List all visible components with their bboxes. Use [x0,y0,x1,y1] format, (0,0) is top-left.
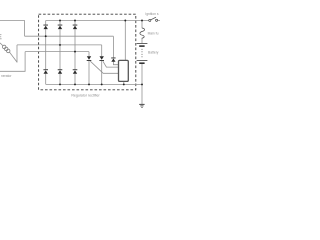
regulator IC U1 [119,60,129,81]
wire IC top pin from rail [124,21,126,61]
wire phase2 drop to SCR Q2 [101,45,103,56]
wire rectifier D3 column [74,21,76,85]
node rail-battery [141,20,143,22]
generator winding lead-in [0,43,3,46]
wire rectifier D1 column [45,21,47,85]
wire top-left lead [0,21,25,37]
generator winding tail diagonal [10,52,18,62]
wire battery column top [141,21,143,29]
wire IC bottom pin [123,82,125,85]
supply diode D7 [111,58,115,62]
wire battery to rail and ground [141,64,143,104]
node lower rail Q1 [88,83,90,85]
node rail-IC [124,20,126,22]
junction dots [45,20,143,86]
wire supply diode to IC [113,62,118,65]
generator winding loops [2,45,10,53]
node lower rail battery [141,83,143,85]
svg-text:Ignition s: Ignition s [145,12,159,16]
node phase1-D1 [45,35,47,37]
node lower rail D3 [74,83,76,85]
wire winding tap vertical [16,45,18,63]
fuse F1 [140,28,145,38]
node lower rail IC [123,83,125,85]
wire switch stub right [158,20,160,22]
diode D1 top [43,25,48,30]
left-edge text fragment marks [0,34,2,39]
svg-text:Battery: Battery [148,51,159,55]
wire bottom rail [46,83,142,85]
battery BT1 [137,43,148,64]
svg-text:Main fu: Main fu [148,32,159,36]
wire SCR Q1 cathode [88,61,90,85]
wire rectifier D2 column [59,21,61,85]
dashed enclosure: regulator rectifier box [39,14,136,90]
wire phase3 drop to SCR Q1 [88,52,90,57]
node lower rail Q2 [101,83,103,85]
wire gate Q1 to IC [90,61,118,73]
node lower rail D2 [59,83,61,85]
wire phase1 horizontal [25,35,114,37]
diode D4 bottom [43,69,48,73]
node phase2-D2 [59,44,61,46]
diode D6 bottom [73,69,78,73]
node rail-D2 [59,20,61,22]
wire gate Q2 to IC [103,61,119,67]
SCR Q2 [99,56,104,61]
wire phase1 drop to supply diode [112,36,114,57]
node phase3-D3 [74,51,76,53]
ignition switch [149,17,158,21]
wire phase3 horizontal [25,51,89,53]
diode D3 top [73,25,78,30]
diode D5 bottom [58,69,63,73]
wire top rail [46,20,149,22]
background [0,0,160,120]
wire generator lower lead [0,52,25,72]
diode D2 top [58,25,63,30]
svg-text:nerator: nerator [1,74,12,78]
svg-text:Regulator rectifier: Regulator rectifier [71,94,100,98]
wire SCR Q2 cathode [101,61,103,85]
SCR Q1 [87,56,92,61]
wire phase2 horizontal [17,44,102,46]
node rail-D3 [74,20,76,22]
wire fuse to battery [141,38,143,43]
ground [139,104,144,108]
